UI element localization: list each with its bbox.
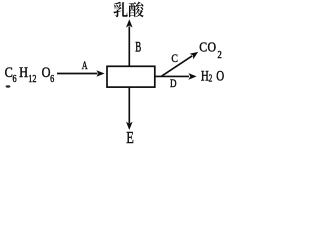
svg-text:O: O bbox=[216, 67, 224, 84]
svg-text:2: 2 bbox=[217, 50, 222, 61]
wire D (horizontal arrow to H2O) bbox=[155, 75, 189, 77]
svg-text:E: E bbox=[126, 129, 134, 146]
arrowhead B (points up to 乳酸) bbox=[126, 19, 133, 27]
svg-text:O: O bbox=[208, 39, 217, 55]
svg-text:2: 2 bbox=[209, 72, 213, 83]
svg-text:C: C bbox=[199, 39, 207, 55]
node 乳酸 (lactic acid product label) bbox=[113, 2, 143, 17]
svg-text:C: C bbox=[5, 64, 13, 80]
process box (reaction site) bbox=[107, 66, 155, 87]
svg-text:6: 6 bbox=[50, 73, 54, 84]
svg-text:12: 12 bbox=[28, 73, 37, 84]
svg-text:O: O bbox=[42, 64, 51, 80]
node CO2 (carbon dioxide product label) bbox=[199, 39, 222, 61]
arrowhead C bbox=[190, 52, 199, 59]
svg-text:6: 6 bbox=[12, 73, 16, 84]
arrowhead D bbox=[188, 73, 196, 80]
svg-text:D: D bbox=[170, 78, 177, 90]
wire E (vertical line from box bottom down) bbox=[128, 87, 130, 123]
arrowhead E (points down) bbox=[126, 122, 133, 130]
scan smudge artifact below glucose subscript bbox=[6, 85, 11, 87]
svg-text:A: A bbox=[82, 60, 89, 73]
svg-text:B: B bbox=[135, 38, 141, 55]
wire A (horizontal arrow from glucose into box) bbox=[57, 73, 98, 75]
svg-text:C: C bbox=[171, 53, 178, 66]
wire B (vertical line from box top up) bbox=[128, 27, 130, 67]
svg-text:H: H bbox=[19, 64, 28, 80]
arrowhead A bbox=[96, 70, 104, 77]
node C6H12O6 (glucose reactant label) bbox=[5, 64, 55, 84]
wire C (diagonal arrow up-right to CO2) bbox=[162, 56, 193, 76]
node H2O (water product label) bbox=[201, 67, 224, 84]
